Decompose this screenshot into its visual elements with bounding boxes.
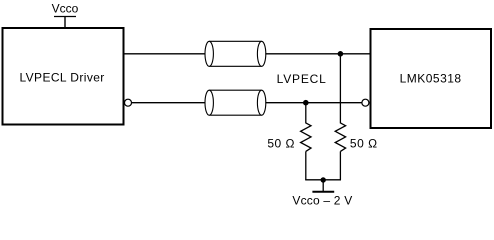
svg-text:Vcco: Vcco [52, 2, 79, 16]
wire top output (LVPECL Driver to transmission line) [124, 53, 206, 55]
resistor 50 ohm (right) [335, 123, 345, 151]
wire from bottom junction down to left resistor [305, 103, 307, 124]
wire left resistor bottom leg [305, 151, 307, 179]
svg-text:LVPECL Driver: LVPECL Driver [19, 70, 104, 84]
wire top (transmission line to LMK05318) [265, 53, 370, 55]
inverting bubble on LVPECL Driver lower output [125, 99, 132, 106]
svg-text:LMK05318: LMK05318 [400, 72, 462, 86]
wire from top junction down to right resistor [339, 54, 341, 124]
junction dot on bottom wire [303, 100, 309, 106]
component U2 LMK05318 [371, 29, 492, 128]
junction dot at termination node [321, 177, 326, 182]
transmission line T1 (top coax) [205, 41, 266, 66]
wire joining resistor bottoms [305, 179, 341, 181]
wire bottom (transmission line to bubble at LMK05318) [265, 102, 361, 104]
wire bottom output (bubble to transmission line) [132, 102, 206, 104]
wire right resistor bottom leg [339, 151, 341, 179]
resistor 50 ohm (left) [301, 123, 311, 151]
power symbol Vcco [52, 2, 79, 29]
svg-text:50 Ω: 50 Ω [267, 136, 295, 150]
power rail Vcco - 2 V (terminal bar) [312, 191, 334, 193]
inverting bubble on LMK05318 lower input [362, 99, 369, 106]
transmission line T2 (bottom coax) [205, 90, 266, 115]
wire stem to termination rail [322, 180, 324, 192]
svg-text:Vcco – 2 V: Vcco – 2 V [292, 193, 352, 207]
component LVPECL Driver [3, 28, 124, 125]
svg-text:50 Ω: 50 Ω [350, 136, 378, 150]
junction dot on top wire [338, 51, 344, 57]
svg-text:LVPECL: LVPECL [277, 72, 327, 86]
